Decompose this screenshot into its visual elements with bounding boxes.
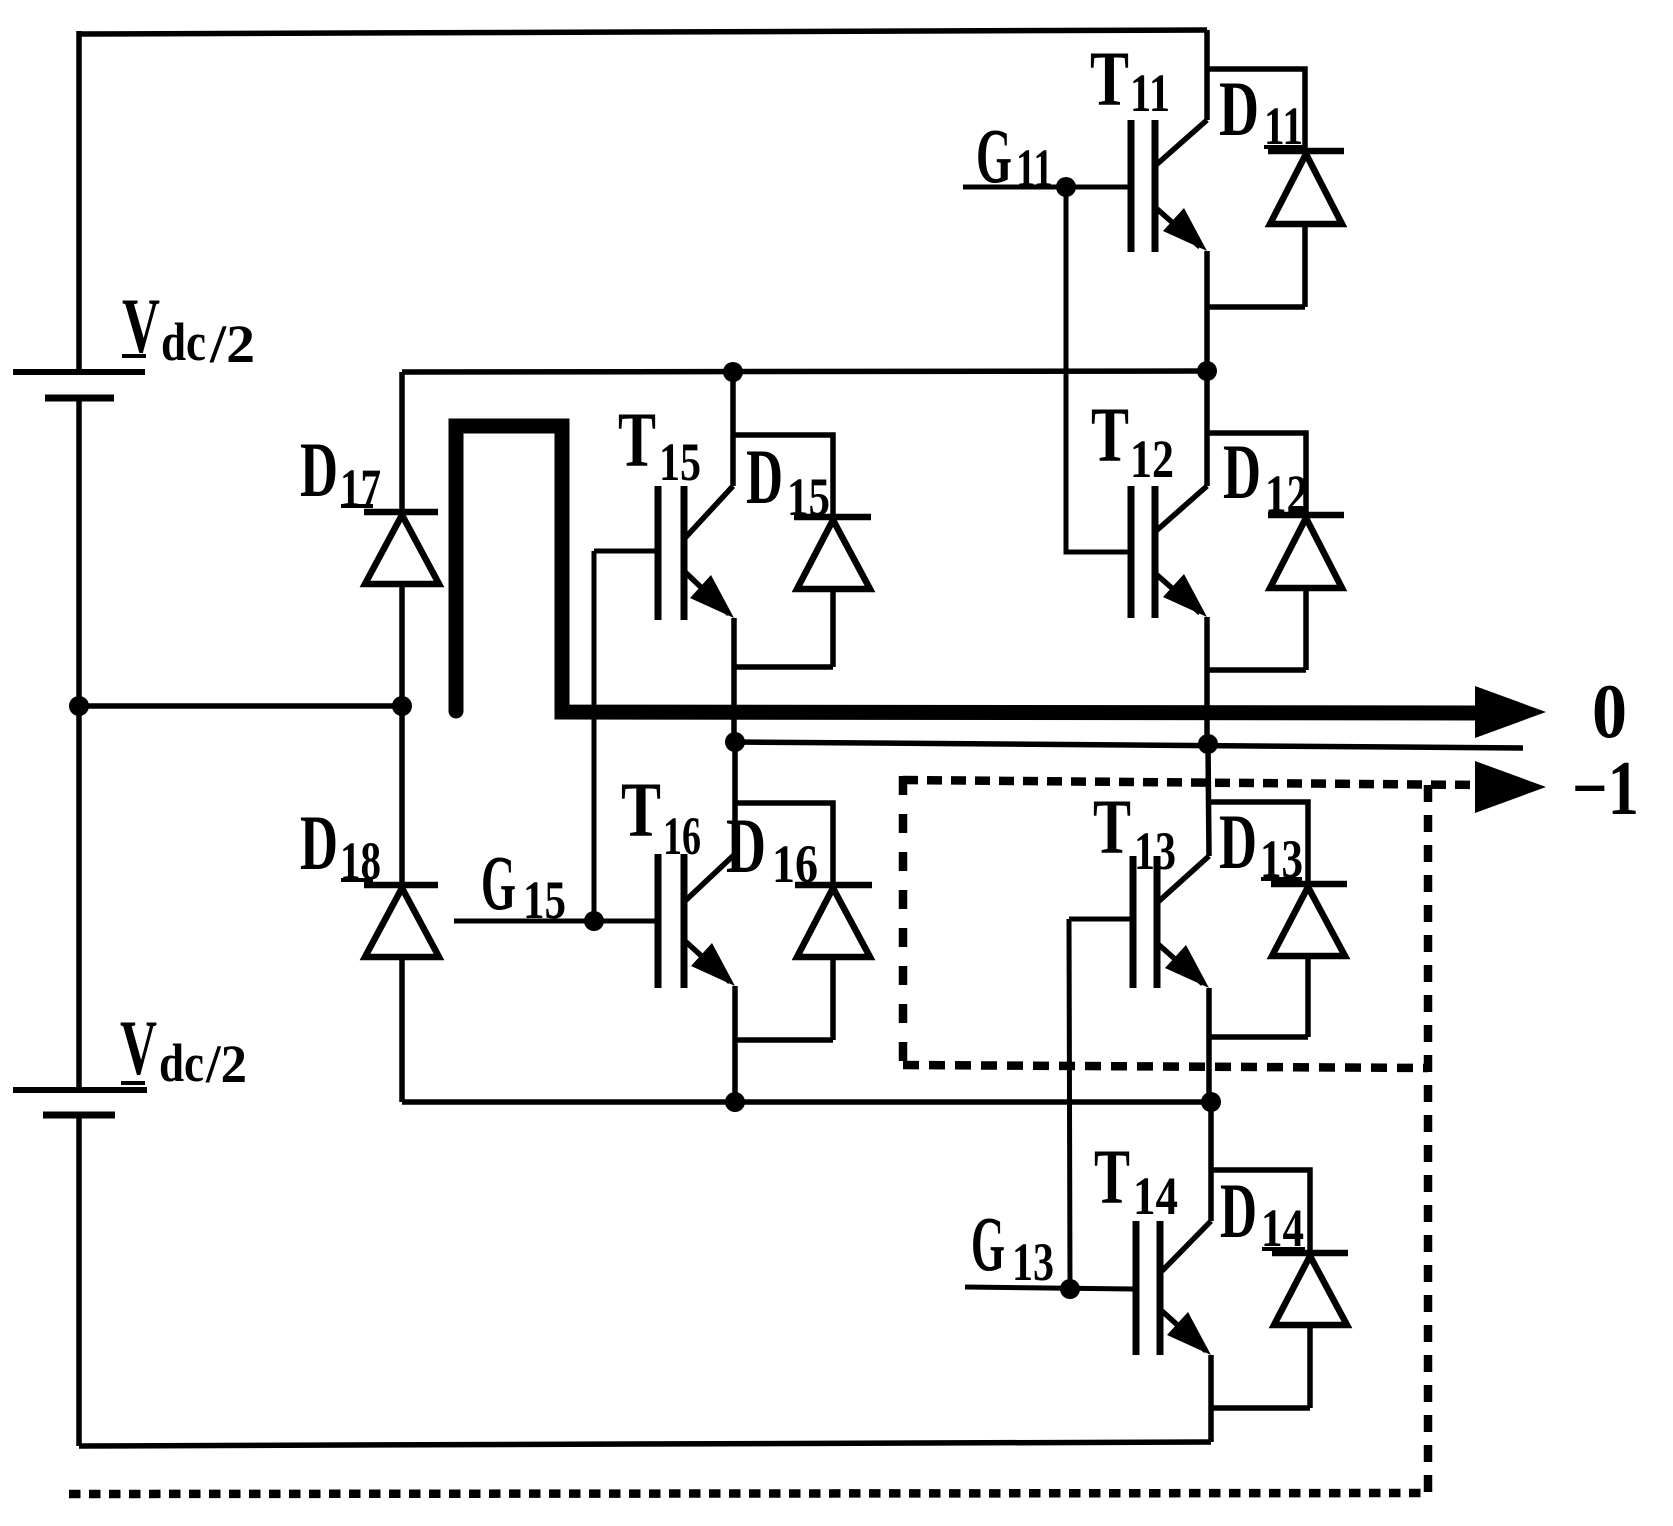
svg-text:dc: dc	[159, 1033, 204, 1093]
diode D18 clamp	[364, 706, 439, 1102]
diode D16	[735, 803, 872, 1040]
svg-text:D: D	[1219, 798, 1257, 885]
wire left rail bottom (battery V2 to DC- rail)	[76, 1115, 82, 1446]
label T16	[621, 766, 701, 866]
svg-text:13: 13	[1134, 821, 1176, 881]
svg-text:D: D	[1223, 428, 1261, 515]
label T14	[1094, 1133, 1178, 1226]
svg-text:D: D	[726, 802, 766, 889]
node neutral at clamp column	[392, 696, 412, 716]
svg-text:T: T	[1094, 1133, 1130, 1220]
svg-text:T: T	[1093, 783, 1131, 870]
svg-text:G: G	[976, 112, 1012, 199]
label G13	[971, 1200, 1054, 1292]
svg-text:13: 13	[1012, 1232, 1054, 1292]
label T15	[618, 396, 701, 492]
svg-text:T: T	[621, 766, 661, 853]
svg-text:/2: /2	[205, 1034, 247, 1094]
transistor T12	[1131, 371, 1207, 743]
svg-text:D: D	[1219, 65, 1259, 152]
label T13	[1093, 783, 1176, 881]
svg-text:12: 12	[1265, 464, 1308, 524]
label D13	[1219, 798, 1303, 889]
svg-text:D: D	[300, 799, 338, 886]
svg-text:11: 11	[1016, 138, 1053, 198]
dashed path -1: box top edge around T13	[903, 780, 1481, 785]
wire rail node B (between T13/T14, to clamp branch)	[402, 1099, 1211, 1105]
svg-text:D: D	[746, 433, 783, 520]
arrowhead output -1	[1475, 761, 1546, 813]
svg-text:G: G	[481, 839, 516, 926]
svg-text:T: T	[1090, 35, 1129, 122]
transistor T11	[963, 30, 1207, 371]
node neutral on left rail	[69, 696, 89, 716]
node B at T16 emitter tap	[725, 1092, 745, 1112]
transistor T14	[965, 1102, 1211, 1442]
transistor T16	[454, 742, 735, 1102]
label G15	[481, 839, 566, 930]
transistor T15	[594, 372, 734, 742]
transistor T13	[1069, 744, 1209, 1102]
svg-text:D: D	[300, 426, 338, 513]
wire gate riser T13 to G13	[1069, 919, 1070, 1289]
wire thin phase output line	[735, 742, 1523, 748]
diode D11	[1207, 69, 1344, 307]
label G11	[976, 112, 1053, 199]
svg-text:16: 16	[663, 806, 701, 866]
label D14	[1220, 1167, 1305, 1258]
svg-text:16: 16	[772, 834, 818, 894]
wire top DC+ rail	[79, 30, 1207, 34]
arrowhead output 0	[1475, 686, 1546, 738]
label D16	[726, 802, 818, 894]
node gate G11	[1056, 177, 1076, 197]
svg-text:11: 11	[1130, 63, 1170, 123]
dashed path -1: right edge down	[1424, 785, 1433, 1493]
diode D15	[733, 435, 871, 667]
svg-text:D: D	[1220, 1167, 1257, 1254]
node A at T15 branch tap	[723, 362, 743, 382]
wire neutral rail to clamp diodes	[79, 703, 402, 709]
label V_dc/2 (top source)	[122, 282, 255, 374]
diode D17 clamp	[364, 372, 439, 706]
label D15	[746, 433, 830, 527]
node gate G13	[1060, 1279, 1080, 1299]
node phase output at T12/T13	[1198, 734, 1218, 754]
svg-text:/2: /2	[209, 314, 255, 374]
svg-text:T: T	[1091, 391, 1129, 478]
wire left rail middle (battery V1 to neutral node)	[76, 398, 82, 706]
wire bottom DC- rail	[79, 1442, 1211, 1446]
label V_dc/2 (bottom source)	[120, 1004, 247, 1094]
label T12	[1091, 391, 1174, 489]
node A at T11 emitter / T12 collector	[1197, 361, 1217, 381]
svg-text:15: 15	[523, 870, 566, 930]
diode D13	[1209, 802, 1347, 1037]
svg-text:14: 14	[1133, 1166, 1178, 1226]
label T11	[1090, 35, 1170, 123]
thick current path 0	[456, 426, 1481, 713]
label D17	[300, 426, 381, 518]
svg-text:G: G	[971, 1200, 1005, 1287]
wire gate riser T15 to G15	[592, 551, 597, 921]
label D12	[1223, 428, 1308, 524]
svg-text:T: T	[618, 396, 656, 483]
wire left rail upper (DC+ to battery V1)	[76, 31, 82, 372]
svg-text:V: V	[120, 1004, 157, 1091]
label D11	[1219, 65, 1303, 156]
svg-text:17: 17	[340, 458, 381, 518]
svg-text:0: 0	[1592, 668, 1627, 754]
svg-text:15: 15	[787, 467, 830, 527]
node B at T13 emitter / T14 collector	[1201, 1092, 1221, 1112]
svg-text:15: 15	[659, 432, 701, 492]
dashed path -1: box left edge	[899, 776, 908, 1065]
battery V1 Vdc/2 top	[13, 372, 145, 398]
svg-text:dc: dc	[161, 312, 206, 372]
svg-text:−1: −1	[1572, 745, 1639, 831]
label D18	[300, 799, 381, 891]
diode D12	[1207, 433, 1344, 670]
diode D14	[1211, 1170, 1348, 1408]
dashed path -1: bottom long dashed line	[69, 1493, 1428, 1494]
node gate G15	[584, 911, 604, 931]
wire left rail lower (neutral to battery V2)	[76, 706, 82, 1090]
node phase output at T15/T16	[725, 732, 745, 752]
wire gate riser G11 to T12	[1066, 187, 1128, 552]
battery V2 Vdc/2 bottom	[13, 1090, 147, 1115]
dashed path -1: box bottom edge	[903, 1065, 1428, 1068]
wire rail node A (between T11/T12, to clamp branch)	[402, 371, 1207, 372]
svg-text:12: 12	[1130, 429, 1174, 489]
